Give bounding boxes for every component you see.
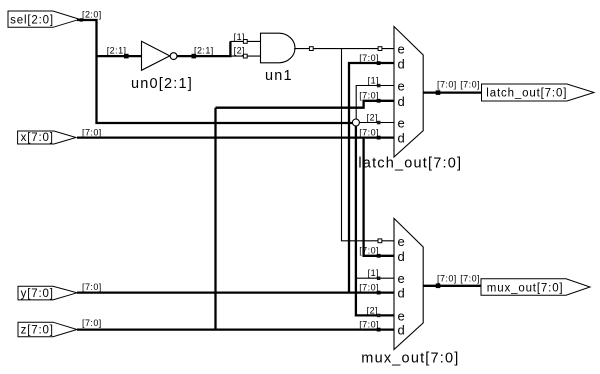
svg-text:[2]: [2] (367, 113, 378, 123)
pin square mux2 e2 (377, 277, 381, 281)
svg-text:[2]: [2] (367, 305, 378, 315)
svg-text:[7:0]: [7:0] (359, 320, 379, 330)
svg-text:un0[2:1]: un0[2:1] (131, 76, 193, 92)
pin square mux1 e1 (open) (378, 47, 382, 51)
wire sel bus: top run, down x=96.5, right at y=123 (77, 20, 352, 123)
svg-text:e: e (398, 42, 405, 57)
svg-text:[2:1]: [2:1] (107, 45, 127, 55)
wire mux1 e3 from sel circle (359, 122, 393, 124)
wire AND output to mux1 e1 (294, 48, 393, 50)
output port latch_out[7:0] (482, 84, 595, 101)
inverter un0 bubble (170, 53, 177, 60)
svg-text:[1]: [1] (368, 268, 379, 278)
svg-text:e: e (398, 79, 405, 94)
node square on mux2 output (436, 284, 441, 289)
node square after bubble (192, 54, 197, 59)
wire mux1 e2 tap from sel circle (356, 86, 393, 120)
AND gate un1 body (261, 33, 296, 63)
svg-text:mux_out[7:0]: mux_out[7:0] (361, 350, 459, 366)
node tap square on inverter input wire (124, 54, 129, 59)
pin square AND pin 2 (open) (243, 54, 247, 58)
svg-text:[7:0]: [7:0] (82, 282, 102, 292)
svg-text:x[7:0]: x[7:0] (21, 132, 54, 144)
wire AND output branch down to mux2 e1 (342, 49, 394, 241)
input port x[7:0] (18, 131, 76, 144)
pin square mux1 d1 (377, 61, 381, 65)
pin square mux1 d3 (377, 136, 381, 140)
svg-text:[7:0]: [7:0] (359, 246, 379, 256)
svg-text:d: d (398, 286, 405, 301)
wire mux1 d2 from y-run jog (216, 101, 394, 108)
node square on AND output (open) (309, 47, 313, 51)
pin square mux1 e3 (377, 121, 381, 125)
wire inverter output to AND gate (177, 41, 230, 56)
mux1 pin letters e d (398, 42, 405, 146)
wire to AND pin 1 (230, 40, 260, 42)
wire sel[2:1] branch to inverter input (97, 55, 142, 57)
wire z to mux2 d3 (77, 328, 394, 330)
svg-text:y[7:0]: y[7:0] (21, 288, 54, 300)
mux mux_out[7:0] body (394, 218, 423, 349)
svg-text:[2:1]: [2:1] (194, 45, 214, 55)
svg-text:[1]: [1] (368, 75, 379, 85)
wire x branch down to mux2 d1 (364, 138, 394, 256)
svg-text:[7:0]: [7:0] (359, 53, 379, 63)
svg-text:[7:0]: [7:0] (359, 90, 379, 100)
pin square mux1 e2 (377, 84, 381, 88)
svg-text:un1: un1 (265, 68, 293, 84)
wire sel bus down to mux2 (356, 126, 394, 315)
svg-text:[2:0]: [2:0] (82, 9, 102, 19)
inverter un0 triangle (142, 41, 170, 70)
svg-text:d: d (398, 94, 405, 109)
svg-text:[7:0]: [7:0] (437, 80, 457, 90)
pin square mux2 d2 (377, 291, 381, 295)
wire y-run vertical x=215.5 down to z wire (214, 108, 216, 330)
svg-text:[7:0]: [7:0] (359, 283, 379, 293)
svg-text:sel[2:0]: sel[2:0] (10, 14, 54, 26)
svg-text:d: d (398, 131, 405, 146)
input port sel[2:0] (8, 11, 80, 27)
wire mux2 e2 tap (356, 277, 394, 279)
svg-text:[7:0]: [7:0] (437, 273, 457, 283)
mux latch_out[7:0] body (394, 27, 423, 158)
wire mux1 output (423, 91, 481, 93)
svg-text:e: e (398, 116, 405, 131)
svg-text:latch_out[7:0]: latch_out[7:0] (358, 156, 462, 172)
mux2 pin letters e d (398, 234, 405, 338)
wire y to mux2 d2 (77, 291, 394, 293)
pin square mux2 e1 (open) (378, 239, 382, 243)
pin square mux2 e3 (377, 314, 381, 318)
svg-text:latch_out[7:0]: latch_out[7:0] (486, 88, 567, 100)
wire mux1 d1 from y-net vertical x=349 (349, 63, 394, 293)
svg-text:d: d (398, 56, 405, 71)
output port mux_out[7:0] (481, 279, 590, 295)
pin square AND pin 1 (open) (243, 40, 247, 44)
svg-text:[7:0]: [7:0] (460, 80, 480, 90)
input port y[7:0] (18, 286, 77, 300)
svg-text:[7:0]: [7:0] (82, 318, 102, 328)
svg-text:[7:0]: [7:0] (460, 273, 480, 283)
svg-text:z[7:0]: z[7:0] (21, 324, 54, 336)
junction circle sel bus ripper (352, 119, 359, 126)
svg-text:e: e (398, 271, 405, 286)
svg-text:d: d (398, 249, 405, 264)
svg-text:d: d (398, 323, 405, 338)
svg-text:mux_out[7:0]: mux_out[7:0] (487, 282, 564, 294)
wire x to mux1 d3 (77, 136, 394, 138)
svg-text:[7:0]: [7:0] (82, 127, 102, 137)
pin square mux2 d3 (377, 328, 381, 332)
wire to AND pin 2 (232, 55, 261, 57)
pin square mux1 d2 (377, 99, 381, 103)
node sel pin square at port (80, 18, 83, 21)
wire mux2 output (423, 285, 481, 287)
svg-text:e: e (398, 308, 405, 323)
svg-text:e: e (398, 234, 405, 249)
svg-text:[7:0]: [7:0] (359, 127, 379, 137)
node square on mux1 output (436, 90, 441, 95)
input port z[7:0] (18, 322, 77, 337)
pin square mux2 d1 (377, 254, 381, 258)
